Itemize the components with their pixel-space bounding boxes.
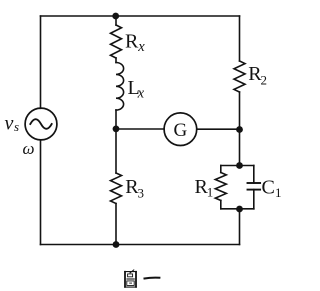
svg-text:x: x [137, 86, 145, 102]
svg-text:C: C [262, 177, 275, 199]
svg-text:1: 1 [275, 185, 282, 200]
svg-text:2: 2 [261, 72, 268, 87]
svg-text:1: 1 [207, 185, 214, 200]
svg-text:x: x [137, 39, 145, 55]
svg-text:ω: ω [23, 139, 35, 158]
svg-text:s: s [14, 119, 19, 134]
svg-text:3: 3 [138, 185, 145, 200]
svg-text:v: v [5, 113, 14, 135]
svg-text:G: G [174, 120, 188, 141]
svg-text:R: R [125, 31, 139, 53]
